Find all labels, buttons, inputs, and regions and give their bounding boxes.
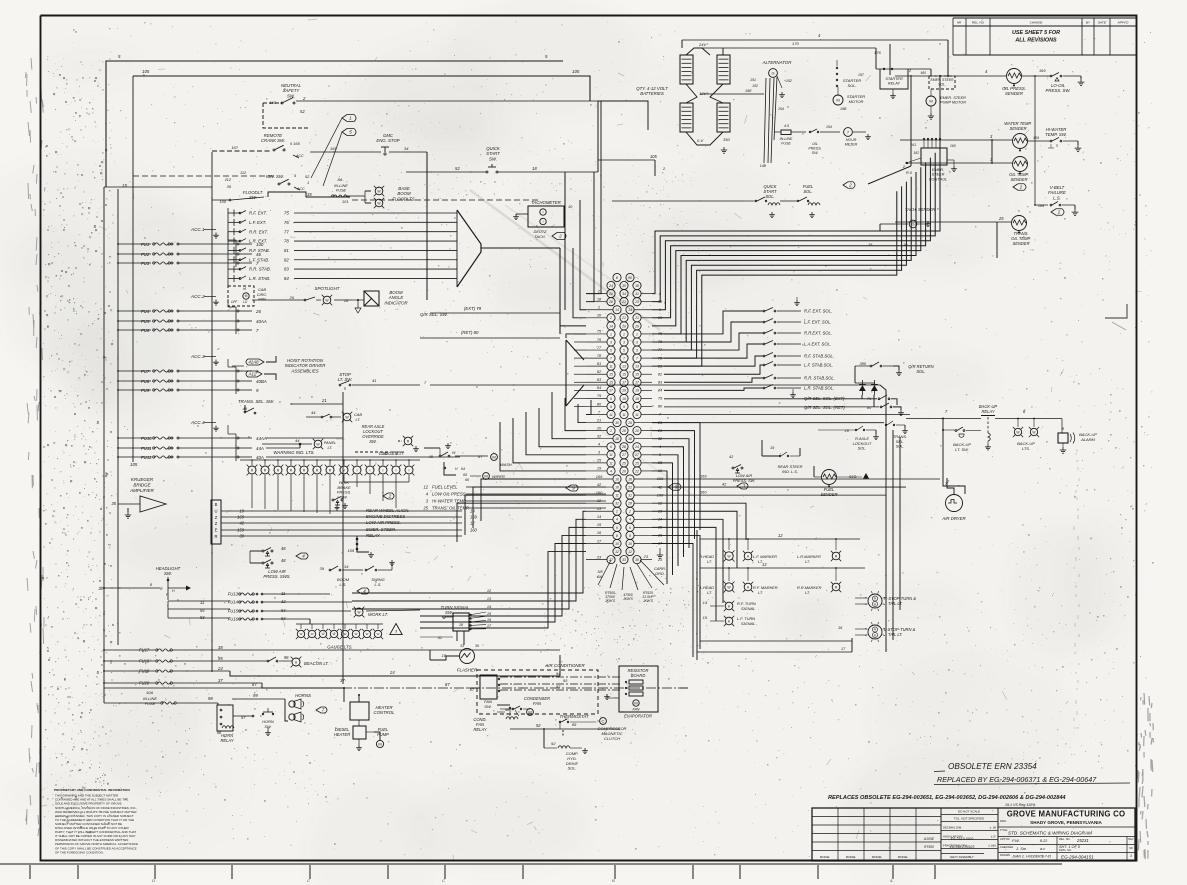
svg-text:7: 7 [610,357,612,361]
wire fu16 row [263,618,310,620]
svg-text:U: U [214,508,217,513]
svg-text:28: 28 [608,300,613,304]
svg-text:Z: Z [215,515,218,520]
svg-text:R.R. EXT.: R.R. EXT. [249,229,268,234]
svg-text:159: 159 [348,548,355,553]
svg-text:REPLACED BY EG-294-006371 & EG: REPLACED BY EG-294-006371 & EG-294-00647 [937,775,1097,784]
svg-text:PUMP: PUMP [377,732,389,737]
swing limit switch [365,569,367,571]
svg-text:STARTER: STARTER [885,77,903,81]
svg-text:M: M [245,294,248,298]
svg-text:STEER: STEER [932,173,945,177]
boom angle indicator [364,291,379,306]
svg-text:84: 84 [284,276,289,281]
stabilizer/extension switch bank [228,208,457,288]
svg-text:M: M [528,709,531,714]
cab light [343,413,351,421]
svg-text:L.S.: L.S. [1053,195,1061,200]
svg-text:14: 14 [609,324,613,328]
svg-text:B: B [215,502,218,507]
svg-text:44: 44 [295,438,300,443]
backup lights [1014,428,1021,435]
gauge lights row [296,624,383,650]
svg-text:35: 35 [111,501,116,506]
svg-text:23: 23 [657,557,663,562]
svg-text:W: W [344,632,347,636]
svg-text:26: 26 [627,421,632,425]
svg-text:15: 15 [622,373,626,377]
svg-text:18: 18 [628,437,632,441]
svg-text:161: 161 [910,143,916,147]
svg-text:L.S.: L.S. [340,582,347,587]
base boom floodlights [375,187,383,195]
lamp block frame [696,530,698,660]
svg-text:LT.: LT. [707,590,712,595]
svg-text:JUAN C. HUDDERS: JUAN C. HUDDERS [1011,855,1044,859]
wire 4 top [682,39,948,41]
svg-text:CHECKED: CHECKED [1000,845,1013,849]
wire fu15 row to work light [263,610,351,612]
svg-text:11: 11 [615,494,619,498]
svg-text:L.R. STAB.: L.R. STAB. [249,276,270,281]
svg-text:24: 24 [634,445,639,449]
svg-text:20: 20 [596,425,602,430]
svg-text:TRANS. OIL TEMP.: TRANS. OIL TEMP. [432,506,470,511]
svg-text:26: 26 [289,295,295,300]
svg-text:78: 78 [284,239,289,244]
svg-text:DWG. NO.: DWG. NO. [1059,848,1072,852]
svg-text:18: 18 [635,284,639,288]
svg-text:18: 18 [532,166,537,171]
svg-text:TAIL LT.: TAIL LT. [888,632,903,637]
svg-text:23: 23 [643,554,649,559]
svg-text:11: 11 [609,461,613,465]
svg-text:29: 29 [621,324,626,328]
svg-text:F.W.: F.W. [1012,838,1020,843]
bottom margin ticks [30,865,935,883]
svg-text:25: 25 [634,461,639,465]
wire 40A run [240,457,266,460]
svg-text:APP'VD: APP'VD [1000,837,1010,841]
starter motor [833,95,843,105]
svg-text:RELAY: RELAY [366,533,381,538]
svg-text:INDICATOR: INDICATOR [384,300,407,305]
fuse group FU1-FU3 with ACC.1 [117,227,264,267]
svg-text:SW.: SW. [445,610,453,615]
svg-text:M: M [634,700,637,705]
svg-text:37: 37 [340,678,345,683]
svg-text:TOL. NOT SPECIFIED: TOL. NOT SPECIFIED [954,817,985,821]
svg-text:L.S.: L.S. [375,582,382,587]
svg-text:BY: BY [1086,21,1090,25]
svg-text:25: 25 [422,506,428,511]
svg-text:98: 98 [208,696,213,701]
svg-text:4.5: 4.5 [784,124,789,128]
svg-text:W: W [322,632,325,636]
svg-text:4: 4 [629,518,631,522]
svg-text:20: 20 [844,428,850,433]
wire 7 long [652,414,910,416]
svg-text:19: 19 [635,397,639,401]
svg-text:19E: 19E [745,89,752,93]
svg-text:(EXT) 79: (EXT) 79 [464,306,482,311]
svg-text:3: 3 [636,340,638,344]
svg-text:RELAY: RELAY [888,82,901,86]
svg-text:R.F. EXT. SOL.: R.F. EXT. SOL. [804,309,832,314]
svg-text:105: 105 [572,69,580,74]
tachometer [528,206,564,227]
diesel heater [353,726,366,739]
svg-text:20: 20 [634,429,639,433]
svg-text:41: 41 [438,636,442,640]
svg-text:112: 112 [225,177,232,182]
wire 12 row [700,538,860,540]
fuse group FU13-FU16 [228,591,287,621]
svg-text:37: 37 [218,678,223,683]
svg-text:CONTROL: CONTROL [373,710,395,715]
svg-text:REAR WHEEL ALIGN.: REAR WHEEL ALIGN. [366,508,409,513]
svg-text:EMER. STEER.: EMER. STEER. [366,527,396,532]
svg-text:44A: 44A [256,446,264,451]
svg-text:TITLE: TITLE [1000,828,1008,832]
svg-text:IND. L.S.: IND. L.S. [782,469,798,474]
svg-text:6: 6 [610,445,612,449]
water temp sender [1013,134,1028,149]
svg-text:R: R [214,534,217,539]
svg-text:SOL.: SOL. [765,194,774,199]
svg-text:± .06: ± .06 [990,825,997,829]
svg-text:1: 1 [636,332,638,336]
svg-text:22: 22 [627,485,632,489]
svg-text:8: 8 [629,534,631,538]
wire bus A x=104 [103,187,105,703]
svg-text:4: 4 [616,518,618,522]
svg-text:87: 87 [445,682,450,687]
svg-text:14B: 14B [760,164,767,168]
svg-text:92: 92 [536,723,541,728]
svg-text:34: 34 [404,146,409,151]
svg-text:NR: NR [1129,847,1133,850]
svg-text:4: 4 [610,469,612,473]
svg-text:ACC.1: ACC.1 [190,227,205,232]
svg-text:ACC.3: ACC.3 [190,354,205,359]
svg-text:M: M [836,97,839,102]
wire 44A run [266,447,300,449]
svg-text:8: 8 [616,534,618,538]
svg-text:RELAY: RELAY [473,727,486,732]
handwritten obsolete note [934,762,1130,785]
svg-text:LT.: LT. [805,559,810,564]
svg-text:2: 2 [848,183,852,188]
wire 2 line top [612,200,744,202]
svg-text:1: 1 [623,332,625,336]
emer steer relay [357,536,369,552]
svg-text:13: 13 [622,365,626,369]
svg-text:MOTOR: MOTOR [849,99,864,104]
svg-text:64: 64 [461,467,465,471]
svg-text:105: 105 [650,154,658,159]
wire y187 horizontal [104,186,212,188]
svg-text:35: 35 [307,192,312,197]
svg-text:FAN: FAN [633,708,640,712]
svg-text:6: 6 [616,526,618,530]
compressor magnetic clutch [600,718,607,725]
collector chevron [457,210,481,287]
svg-text:1: 1 [610,332,612,336]
svg-text:TACH. SENDER: TACH. SENDER [905,207,935,212]
svg-text:25: 25 [621,461,626,465]
svg-text:ENG. STOP: ENG. STOP [376,138,399,143]
resistor board [619,666,658,712]
wire top loop 105 [133,76,590,101]
svg-text:AIR DRYER: AIR DRYER [941,516,965,521]
svg-text:77: 77 [284,229,289,234]
solenoid bank RF EXT..LR STAB [664,297,835,398]
gauge sense wires FUEL LEVEL..TRANS OIL TEMP [422,485,606,511]
warning triangle [390,624,402,635]
svg-text:LT.: LT. [805,590,810,595]
svg-text:48: 48 [281,558,286,563]
svg-text:HI: HI [243,287,246,291]
svg-text:FAN: FAN [533,701,541,706]
center-left wire bundle [457,392,591,542]
svg-text:99: 99 [253,693,258,698]
wire fan 94 93 92 [500,676,620,678]
svg-text:LT.: LT. [758,590,763,595]
svg-text:24V⁺: 24V⁺ [698,42,709,47]
wire 160 to right [652,494,886,496]
wire 2 vertical right [910,75,912,166]
svg-text:APPV'D: APPV'D [1118,21,1130,25]
wire top right entry [598,101,648,130]
svg-text:FUSE: FUSE [781,142,791,146]
svg-text:33: 33 [622,558,626,562]
svg-text:HOUR: HOUR [846,138,857,142]
svg-text:WARNING IND. LTS.: WARNING IND. LTS. [273,450,314,455]
svg-text:MODEL: MODEL [898,855,909,859]
lower-right wire bundle [652,503,746,657]
horn relay [217,705,233,731]
svg-text:G: G [771,70,774,75]
svg-text:5: 5 [623,348,625,352]
svg-text:40: 40 [429,454,434,459]
svg-text:9: 9 [636,405,638,409]
emer steer control [921,148,947,165]
svg-text:L.R. EXT.: L.R. EXT. [249,239,267,244]
svg-text:DRAWN: DRAWN [1000,853,1010,857]
svg-text:FU15: FU15 [228,609,239,614]
fuse group FU10-FU12 with ACC.4 [117,420,267,461]
svg-text:D: D [152,878,155,883]
svg-text:162: 162 [913,151,919,155]
svg-text:IGN. SW.: IGN. SW. [266,174,284,179]
svg-text:BATTERIES: BATTERIES [640,91,664,96]
svg-text:5 165: 5 165 [290,141,301,146]
svg-text:GA.: GA. [597,575,603,579]
diodes pair [859,385,866,391]
svg-text:SW.: SW. [369,439,377,444]
wire starter bus [760,57,876,59]
svg-text:(RET) 80: (RET) 80 [461,330,479,335]
svg-text:5: 5 [610,348,612,352]
svg-text:MODEL: MODEL [846,855,857,859]
svg-text:I: I [409,468,410,472]
low air pressure switches [262,550,264,552]
svg-text:15: 15 [635,373,639,377]
svg-text:I: I [383,468,384,472]
svg-text:SIGNAL: SIGNAL [741,606,755,611]
svg-text:W: W [333,632,336,636]
svg-text:REV: REV [1128,838,1133,841]
svg-text:11: 11 [609,453,613,457]
wire 16 row [700,640,852,642]
fuse group FU4-FU6 with ACC.2 [117,294,267,334]
svg-text:10A: 10A [146,690,153,695]
svg-text:12: 12 [628,550,632,554]
svg-text:W: W [300,632,303,636]
wire bus B x=118 [117,189,119,645]
svg-text:66: 66 [465,478,469,482]
flag 5 with leader [342,129,356,136]
svg-text:JKW'S: JKW'S [604,599,616,603]
svg-text:176: 176 [874,50,881,55]
wire fu19 24 [172,670,230,672]
right bus verticals [1034,76,1036,205]
svg-text:SENDER: SENDER [1010,177,1027,182]
svg-text:LT.: LT. [356,417,361,422]
svg-text:BEACON LT.: BEACON LT. [304,661,329,666]
svg-text:30: 30 [635,558,639,562]
chevron output wire [559,248,561,334]
svg-text:WORK LT.: WORK LT. [368,612,388,617]
svg-text:LT.: LT. [328,445,333,450]
svg-text:LOW OIL PRESS.: LOW OIL PRESS. [432,492,467,497]
svg-text:SW.: SW. [484,704,492,709]
connector bottom fan-out [597,560,664,603]
svg-text:36: 36 [475,644,479,648]
svg-text:81: 81 [597,361,601,366]
wire 44AA run [266,437,343,439]
svg-text:160: 160 [950,144,956,148]
svg-text:ACC.2: ACC.2 [190,294,205,299]
svg-text:3: 3 [1130,854,1132,858]
svg-text:THERMOSTAT: THERMOSTAT [560,714,589,719]
svg-text:LT. SW.: LT. SW. [955,447,969,452]
svg-text:82: 82 [284,257,289,262]
svg-text:JKW'S: JKW'S [642,599,654,603]
svg-text:12: 12 [615,550,619,554]
svg-text:LOW AIR PRESS.: LOW AIR PRESS. [366,520,401,525]
svg-text:11: 11 [609,365,613,369]
svg-text:L.F. STAB.SOL.: L.F. STAB.SOL. [804,363,833,368]
svg-text:L.F. STAB.: L.F. STAB. [249,257,269,262]
svg-text:39: 39 [320,566,325,571]
wire bus D x=212 [211,152,213,672]
svg-text:SHADY GROVE, PENNSYLVANIA: SHADY GROVE, PENNSYLVANIA [1030,820,1102,825]
svg-text:19B: 19B [840,107,847,111]
title block [812,808,1135,861]
fuse group FU7-FU9 with ACC.3 [117,354,267,394]
center-right wire bundle down [652,423,700,584]
svg-text:40AA: 40AA [256,319,267,324]
svg-text:ALL REVISIONS: ALL REVISIONS [1014,38,1057,44]
svg-text:2: 2 [628,510,631,514]
svg-text:SENDER: SENDER [820,492,837,497]
svg-text:ACC.4: ACC.4 [190,420,205,425]
svg-text:I: I [396,468,397,472]
emer steer pump motor [926,96,936,106]
svg-text:± 1/16: ± 1/16 [988,843,996,847]
svg-text:AMPLIFIER: AMPLIFIER [129,488,155,493]
svg-text:SIGNAL: SIGNAL [741,621,755,626]
svg-text:LT. SW.: LT. SW. [338,377,353,382]
svg-text:BRIDGE: BRIDGE [133,482,151,487]
oil temp sender [1013,157,1028,172]
buzzer wires REAR WHEEL ALIGN..EMER STEER RELAY [221,508,478,538]
wire fu20 37 [172,682,262,684]
svg-text:Z: Z [215,521,218,526]
svg-text:TACH.: TACH. [534,234,545,239]
hoist rotation indicator drivers [246,359,264,365]
svg-text:R.R.EXT. SOL.: R.R.EXT. SOL. [804,331,832,336]
svg-text:17: 17 [609,389,613,393]
svg-text:SOL.: SOL. [858,446,867,451]
svg-text:8A: 8A [338,177,343,182]
work light [355,608,363,616]
svg-text:TRANS. SEL. SW.: TRANS. SEL. SW. [238,399,274,404]
svg-text:HEATER: HEATER [334,732,350,737]
svg-text:95: 95 [218,656,223,661]
wire 87 dash-dot [104,687,262,689]
svg-text:154: 154 [778,107,784,111]
svg-text:SENDER: SENDER [1012,241,1029,246]
wire bus C x=133 [132,76,134,462]
buzzer [211,500,221,544]
svg-text:9: 9 [623,405,625,409]
svg-text:21: 21 [596,417,601,422]
wire 169 to right [652,478,940,480]
svg-text:EVAPORATOR: EVAPORATOR [624,714,652,719]
svg-text:25: 25 [998,216,1004,221]
svg-text:19.1 VS Reg 110%: 19.1 VS Reg 110% [1005,803,1036,807]
l stop-turn tail light [868,625,882,639]
svg-text:NEXT ASSEMBLY: NEXT ASSEMBLY [950,855,974,859]
svg-text:FUSE: FUSE [336,189,347,193]
svg-text:A12: A12 [248,372,257,377]
svg-text:169: 169 [700,474,707,479]
svg-text:CRANK SW.: CRANK SW. [261,138,285,143]
svg-text:31: 31 [635,292,639,296]
svg-text:METER: METER [845,143,858,147]
svg-text:a-v: a-v [1040,847,1045,851]
svg-text:15: 15 [609,381,613,385]
svg-text:26: 26 [343,298,349,303]
svg-text:18: 18 [615,437,619,441]
svg-text:DO NOT SCALE: DO NOT SCALE [958,810,980,814]
wire 19E link [700,93,764,95]
svg-text:ANGULAR DIM.: ANGULAR DIM. [943,834,963,838]
svg-text:28: 28 [621,445,626,449]
svg-text:PUMP MOTOR: PUMP MOTOR [940,101,966,105]
svg-text:FUEL LEVEL: FUEL LEVEL [432,485,458,490]
svg-text:W: W [355,632,358,636]
svg-text:5/8: 5/8 [598,570,603,574]
svg-text:IN-LINE: IN-LINE [780,137,793,141]
svg-text:33: 33 [460,644,464,648]
svg-text:41A8: 41A8 [248,360,259,365]
svg-text:11: 11 [635,413,639,417]
svg-text:M: M [378,741,381,746]
